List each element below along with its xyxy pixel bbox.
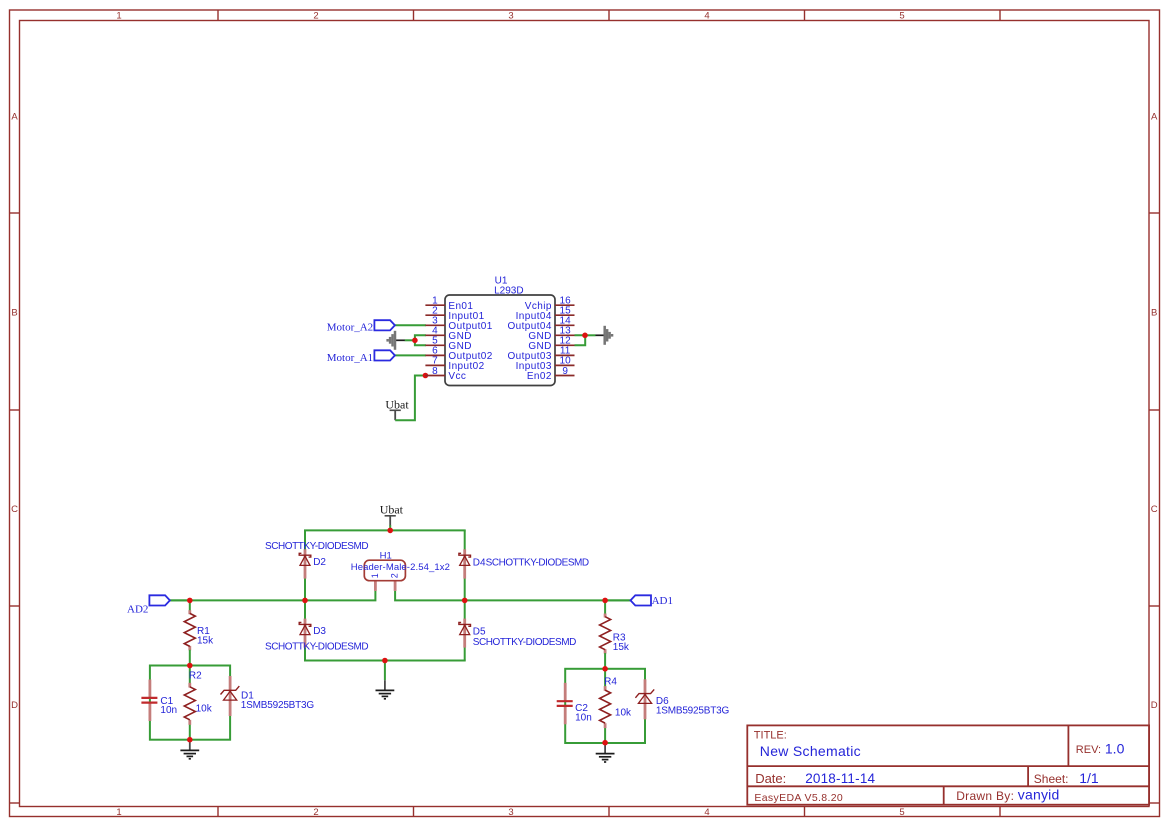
junction dot box bottom	[187, 737, 193, 743]
junction dot bus R1	[187, 598, 193, 604]
wire right rail (D4/D5 column)	[464, 530, 466, 600]
ground (left box)	[180, 749, 199, 751]
U1 pin 5 GND	[425, 344, 445, 346]
svg-text:1: 1	[116, 807, 121, 818]
svg-text:REV:: REV:	[1076, 744, 1101, 756]
U1 pin 1 En01	[425, 304, 445, 306]
wire R4 top	[604, 669, 606, 688]
svg-text:10n: 10n	[575, 712, 592, 723]
svg-text:10n: 10n	[160, 705, 177, 716]
net port AD1	[605, 599, 631, 601]
ground (left of U1)	[394, 331, 397, 350]
U1 pin 3 Output01	[425, 324, 445, 326]
net port AD2	[170, 599, 190, 601]
U1 pin 8 Vcc	[425, 375, 445, 377]
diode D6 leads	[644, 679, 647, 719]
junction dot bus D4/D5 rail	[462, 598, 468, 604]
wire left gnd stem	[396, 339, 405, 341]
svg-text:Motor_A2: Motor_A2	[327, 322, 373, 334]
wire R2 top	[189, 666, 191, 685]
wire Motor_A1 to pin6	[395, 354, 426, 356]
svg-text:AD1: AD1	[652, 595, 673, 607]
wire right GND to pins 13,12	[575, 335, 596, 345]
junction dot pin8	[423, 373, 429, 379]
U1 pin 13 GND	[555, 334, 575, 336]
wire top rail	[304, 529, 466, 531]
svg-text:D2: D2	[313, 557, 326, 568]
U1 pin 6 Output02	[425, 354, 445, 356]
ground (right of U1)	[603, 326, 606, 345]
svg-text:TITLE:: TITLE:	[754, 730, 787, 742]
U1 pin 16 Vchip	[555, 304, 575, 306]
resistor R4 10k	[600, 690, 611, 723]
svg-text:D: D	[1151, 700, 1158, 711]
diode D1 1SMB5925BT3G	[221, 686, 240, 694]
resistor R3 15k	[600, 617, 611, 650]
svg-text:15k: 15k	[613, 642, 630, 653]
wire R3 top	[604, 600, 606, 614]
svg-text:SCHOTTKY-DIODESMD: SCHOTTKY-DIODESMD	[486, 558, 589, 569]
svg-text:R4: R4	[604, 677, 617, 688]
svg-text:1: 1	[370, 573, 380, 578]
wire right box gnd stem	[604, 743, 606, 754]
resistor R1 leads	[188, 610, 191, 614]
wire right parallel box	[565, 669, 645, 743]
diode D4 SCHOTTKY-DIODESMD	[459, 553, 471, 557]
U1 pin 15 Input04	[555, 314, 575, 316]
svg-text:B: B	[1151, 307, 1157, 318]
svg-text:2: 2	[313, 11, 318, 22]
U1 pin 10 Input03	[555, 364, 575, 366]
svg-text:SCHOTTKY-DIODESMD: SCHOTTKY-DIODESMD	[265, 641, 368, 652]
svg-text:EasyEDA V5.8.20: EasyEDA V5.8.20	[754, 792, 843, 804]
wire bottom rail gnd stem	[384, 661, 386, 681]
svg-text:3: 3	[508, 11, 513, 22]
wire R3 bottom	[604, 653, 606, 669]
svg-text:New Schematic: New Schematic	[760, 743, 861, 759]
junction dot right gnd	[582, 333, 588, 339]
diode D5 SCHOTTKY-DIODESMD	[459, 623, 471, 627]
diode D2 SCHOTTKY-DIODESMD	[299, 553, 311, 557]
svg-text:D: D	[11, 700, 18, 711]
svg-text:3: 3	[508, 807, 513, 818]
svg-text:SCHOTTKY-DIODESMD: SCHOTTKY-DIODESMD	[265, 541, 368, 552]
svg-text:L293D: L293D	[494, 286, 523, 297]
wire bottom rail	[304, 660, 466, 662]
ground (middle bottom)	[376, 689, 395, 691]
svg-text:10k: 10k	[615, 708, 632, 719]
U1 pin 7 Input02	[425, 364, 445, 366]
svg-text:1SMB5925BT3G: 1SMB5925BT3G	[656, 706, 730, 717]
svg-text:C: C	[1151, 504, 1158, 515]
resistor R4 leads	[604, 686, 607, 691]
junction dot bus D2/D3 rail	[302, 598, 308, 604]
resistor R2 10k	[184, 687, 195, 720]
svg-text:2: 2	[390, 573, 400, 578]
diode D1 leads	[229, 676, 232, 716]
svg-text:SCHOTTKY-DIODESMD: SCHOTTKY-DIODESMD	[473, 637, 576, 648]
resistor R3 leads	[604, 614, 607, 618]
svg-text:1.0: 1.0	[1105, 741, 1125, 757]
U1 pin 9 En02	[555, 375, 575, 377]
svg-text:En02: En02	[527, 371, 552, 382]
junction dot R3/box	[602, 666, 608, 672]
capacitor C2 10n	[557, 700, 573, 702]
IC U1 L293D body	[445, 295, 555, 386]
svg-text:Motor_A1: Motor_A1	[327, 352, 373, 364]
capacitor C1 10n	[141, 697, 157, 699]
svg-text:2: 2	[313, 807, 318, 818]
svg-text:Sheet:: Sheet:	[1034, 772, 1069, 786]
svg-text:B: B	[11, 307, 17, 318]
svg-text:10k: 10k	[196, 704, 213, 715]
U1 pin 2 Input01	[425, 314, 445, 316]
svg-text:Header-Male-2.54_1x2: Header-Male-2.54_1x2	[351, 562, 450, 573]
diode D2 leads	[304, 549, 307, 578]
svg-text:4: 4	[704, 11, 709, 22]
capacitor C1 leads	[148, 680, 151, 698]
net port Motor_A1	[374, 350, 395, 360]
svg-text:Ubat: Ubat	[385, 397, 409, 411]
junction dot R1/box	[187, 663, 193, 669]
junction dot right box bottom	[602, 740, 608, 746]
svg-text:1/1: 1/1	[1079, 770, 1099, 786]
wire left parallel box	[150, 666, 230, 740]
U1 pin 12 GND	[555, 344, 575, 346]
svg-text:A: A	[1151, 111, 1158, 122]
header H1 Header-Male-2.54_1x2	[364, 560, 405, 581]
diode D5 leads	[463, 619, 466, 648]
svg-text:15k: 15k	[197, 635, 214, 646]
svg-text:D4: D4	[473, 558, 486, 569]
diode D3 SCHOTTKY-DIODESMD	[299, 623, 311, 627]
net port Motor_A2	[374, 320, 395, 330]
svg-text:Date:: Date:	[755, 771, 786, 786]
svg-text:9: 9	[562, 366, 568, 377]
wire main bus left (AD2 side)	[170, 591, 376, 601]
wire R2 bottom	[189, 724, 191, 740]
svg-text:A: A	[11, 111, 18, 122]
svg-text:R2: R2	[189, 670, 202, 681]
diode D4 leads	[463, 549, 466, 578]
header H1 pins	[374, 581, 377, 591]
svg-text:5: 5	[899, 807, 904, 818]
wire R4 bottom	[604, 727, 606, 743]
svg-text:5: 5	[899, 11, 904, 22]
junction dot left gnd	[412, 338, 418, 344]
svg-text:H1: H1	[380, 551, 392, 562]
junction dot bottom rail	[382, 658, 388, 664]
wire Motor_A2 to pin3	[395, 324, 426, 326]
resistor R1 15k	[184, 613, 195, 646]
svg-text:Vcc: Vcc	[448, 371, 466, 382]
wire left rail (D2/D3 column)	[304, 530, 306, 600]
wire R1 top	[189, 600, 191, 610]
ground (right box)	[596, 753, 615, 755]
wire right gnd stem	[596, 334, 605, 336]
svg-text:2018-11-14: 2018-11-14	[805, 771, 875, 786]
wire R1 bottom	[189, 650, 191, 666]
capacitor C2 leads	[564, 683, 567, 701]
diode D3 leads	[304, 619, 307, 648]
svg-text:1SMB5925BT3G: 1SMB5925BT3G	[241, 700, 315, 711]
junction dot bus R3	[602, 598, 608, 604]
U1 pin 14 Output04	[555, 324, 575, 326]
svg-text:vanyid: vanyid	[1018, 787, 1060, 803]
svg-text:1: 1	[116, 11, 121, 22]
svg-text:D3: D3	[313, 626, 326, 637]
wire left box gnd stem	[189, 740, 191, 751]
resistor R2 leads	[188, 683, 191, 688]
svg-text:Drawn By:: Drawn By:	[956, 789, 1014, 803]
svg-text:C: C	[11, 504, 18, 515]
svg-text:AD2: AD2	[127, 603, 148, 615]
U1 pin 11 Output03	[555, 354, 575, 356]
wire Ubat to pin8	[395, 376, 426, 421]
U1 pin 4 GND	[425, 334, 445, 336]
svg-text:8: 8	[432, 366, 438, 377]
junction dot Ubat top rail	[387, 528, 393, 534]
title block	[747, 725, 1149, 804]
svg-text:Ubat: Ubat	[380, 503, 404, 517]
wire main bus right (AD1 side)	[395, 591, 630, 601]
svg-text:4: 4	[704, 807, 709, 818]
diode D6 1SMB5925BT3G	[635, 689, 654, 697]
wire left GND to pins 4,5	[405, 335, 426, 345]
